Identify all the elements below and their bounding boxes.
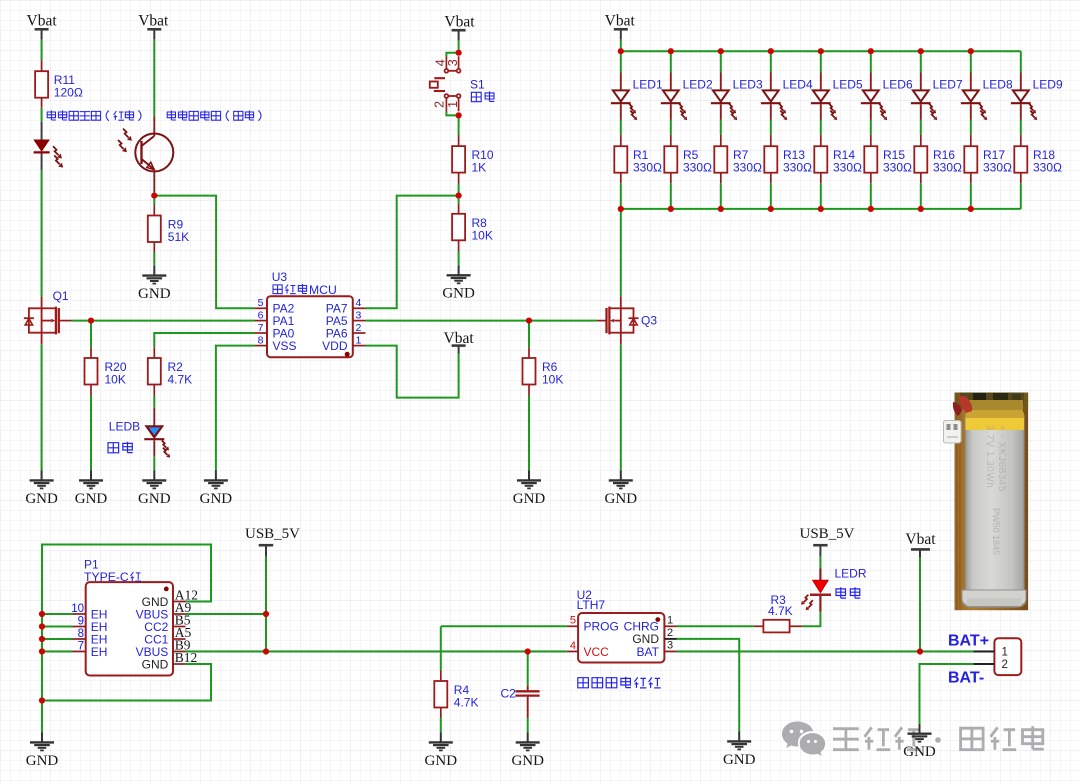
svg-text:330Ω: 330Ω (933, 161, 962, 175)
svg-text:1: 1 (667, 614, 673, 626)
junction bottom bus 2 (668, 206, 674, 212)
P1 left pin stubs (73, 613, 86, 615)
switch S1 pushbutton (430, 56, 461, 111)
ground (LEDB) (153, 471, 155, 481)
wire S1 to R10 (458, 115, 460, 135)
svg-text:Q1: Q1 (53, 289, 69, 303)
wire S1 pin4 bracket (446, 53, 458, 57)
resistor R5 (664, 146, 677, 173)
svg-text:LEDR: LEDR (835, 567, 867, 581)
svg-text:330Ω: 330Ω (683, 161, 712, 175)
junction top bus 4 (768, 48, 774, 54)
junction left rail (39, 623, 45, 629)
wire bus to LED7 (920, 51, 922, 72)
wire R14 to bottom bus (820, 183, 822, 209)
wire Vbat to BAT+ (919, 557, 921, 652)
svg-text:S1: S1 (470, 78, 485, 92)
svg-text:LEDB: LEDB (109, 420, 140, 434)
D1 emission arrows (53, 146, 59, 155)
svg-text:GND: GND (138, 286, 171, 302)
resistor R3 (horizontal) (754, 625, 764, 627)
svg-text:4: 4 (356, 297, 362, 309)
junction bottom bus 8 (968, 206, 974, 212)
svg-text:LTH7: LTH7 (577, 598, 606, 612)
svg-text:330Ω: 330Ω (783, 161, 812, 175)
svg-text:8: 8 (78, 628, 84, 640)
svg-text:5: 5 (258, 297, 264, 309)
wire BAT- to GND (920, 664, 974, 724)
ground (U2) (738, 732, 740, 742)
wire Vbat to R11 (41, 40, 43, 61)
svg-text:GND: GND (605, 491, 638, 507)
svg-text:3: 3 (356, 309, 362, 321)
wire S1 pin2 bracket (446, 112, 458, 116)
LED4 emission arrows (779, 104, 783, 111)
svg-text:GND: GND (723, 752, 756, 768)
resistor R14 (814, 146, 827, 173)
label IR emitter (transparent) (47, 111, 56, 121)
junction top bus 6 (868, 48, 874, 54)
Q3 body diode (629, 317, 639, 319)
LED9 emission arrows (1029, 104, 1033, 111)
svg-text:120Ω: 120Ω (54, 86, 83, 100)
wire P1 left pin (42, 638, 73, 640)
resistor R8 (452, 214, 465, 241)
junction top bus 2 (668, 48, 674, 54)
wire U3 VSS to GND (216, 346, 255, 471)
wire R20 to GND (90, 396, 92, 471)
U2 pin stubs (567, 625, 578, 627)
wire VCC to C2 (527, 652, 529, 686)
LED3 emission arrows (729, 104, 733, 111)
junction left rail (39, 636, 45, 642)
svg-text:1K: 1K (472, 161, 487, 175)
wire U3 PA5 to Q3 gate (366, 320, 597, 322)
wire P1 left pin (42, 613, 73, 615)
U2 pin1 dot (655, 617, 660, 622)
resistor R11 pins (41, 60, 43, 71)
label charge management chip (578, 678, 589, 688)
wire LED6 to R15 (870, 120, 872, 135)
svg-text:U3: U3 (272, 270, 288, 284)
svg-text:LED8: LED8 (983, 78, 1013, 92)
wire R17 to bottom bus (970, 183, 972, 209)
wire bus to LED8 (970, 51, 972, 72)
Q1 body diode (24, 317, 34, 319)
svg-text:1: 1 (356, 334, 362, 346)
svg-text:GND: GND (200, 491, 233, 507)
junction Q2 emitter / R9 (151, 193, 157, 199)
svg-text:330Ω: 330Ω (983, 161, 1012, 175)
svg-text:GND: GND (442, 286, 475, 302)
resistor R1 (614, 146, 627, 173)
svg-text:10K: 10K (472, 228, 493, 242)
junction bottom bus 7 (918, 206, 924, 212)
svg-text:LED2: LED2 (683, 78, 713, 92)
wire bus to LED1 (620, 51, 622, 72)
wire USB_5V to LEDR (819, 557, 821, 569)
svg-text:51K: 51K (168, 230, 189, 244)
label MCU chinese (273, 285, 282, 294)
resistor R18 (1014, 146, 1027, 173)
wire junction to R8 (458, 196, 460, 204)
svg-text:PROG: PROG (584, 620, 619, 634)
wire bus to LED2 (670, 51, 672, 72)
LED LED6 (870, 73, 872, 91)
LEDB emission arrows (162, 440, 167, 447)
wire U2 PROG (441, 625, 567, 627)
svg-text:GND: GND (425, 753, 458, 769)
wire R3 to LEDR (802, 612, 820, 627)
resistor R15 (864, 146, 877, 173)
wire junction to R6 (528, 321, 530, 348)
junction top bus 3 (718, 48, 724, 54)
svg-text:3: 3 (446, 59, 460, 66)
wire U3 PA7 to R10/R8 junction (366, 196, 459, 309)
svg-text:BAT: BAT (637, 645, 660, 659)
wire bus to LED9 (1020, 51, 1022, 72)
resistor R7 pins (720, 135, 722, 146)
charger IC U2 LTH7 (578, 613, 664, 663)
svg-text:GND: GND (138, 491, 171, 507)
resistor R13 pins (770, 135, 772, 146)
label blue color (108, 443, 119, 453)
wire U3 VDD to Vbat (366, 346, 459, 398)
label red color (836, 587, 846, 598)
wire Vbat to S1 (458, 41, 460, 53)
watermark text (833, 729, 859, 750)
wire Q2 emitter to U3 PA2 (154, 196, 254, 309)
P1 pin1 dot (164, 587, 169, 592)
wire R9 to GND (153, 253, 155, 266)
resistor R16 (914, 146, 927, 173)
svg-text:EH: EH (91, 645, 108, 659)
svg-text:10K: 10K (542, 373, 563, 387)
Q3 gate pin (597, 320, 607, 322)
junction VCC / C2 (525, 648, 531, 654)
resistor R5 pins (670, 135, 672, 146)
wire R5 to bottom bus (670, 183, 672, 209)
svg-text:LED6: LED6 (883, 78, 913, 92)
junction R10/R8/PA7 (456, 193, 462, 199)
ground (C2) (527, 733, 529, 743)
resistor R11 (35, 71, 48, 98)
resistor R10 pins (458, 135, 460, 146)
ground (VSS) (215, 471, 217, 481)
svg-text:2: 2 (433, 101, 447, 108)
wire P1 left pin (42, 626, 73, 628)
LEDR emission arrows (804, 595, 809, 602)
wire R4 to GND (440, 718, 442, 733)
LED LED7 (920, 73, 922, 91)
connector J1 battery (994, 638, 1021, 675)
LED1 emission arrows (629, 104, 633, 111)
wire LED bottom bus (621, 208, 1021, 210)
wire LED1 to R1 (620, 120, 622, 135)
junction bottom bus 6 (868, 206, 874, 212)
junction left rail (39, 648, 45, 654)
wire LED top bus (621, 50, 1021, 52)
ground (Q1) (41, 471, 43, 481)
svg-text:8: 8 (258, 334, 264, 346)
svg-text:330Ω: 330Ω (733, 161, 762, 175)
resistor R10 (452, 146, 465, 173)
resistor R17 pins (970, 135, 972, 146)
junction bottom bus 5 (818, 206, 824, 212)
svg-text:LED9: LED9 (1033, 78, 1063, 92)
svg-text:GND: GND (903, 744, 936, 760)
wire R2 to LEDB (153, 396, 155, 408)
junction left rail / B12 (39, 697, 45, 703)
svg-text:1: 1 (446, 101, 460, 108)
wire Q1 gate to U3 PA1 (72, 320, 255, 322)
svg-text:2: 2 (356, 322, 362, 334)
junction top bus 8 (968, 48, 974, 54)
svg-text:3.7V 1.30Wh: 3.7V 1.30Wh (984, 425, 995, 488)
ground (R4) (440, 733, 442, 743)
svg-text:Vbat: Vbat (905, 531, 936, 548)
svg-text:2: 2 (667, 627, 673, 639)
svg-text:4: 4 (570, 640, 576, 652)
wire R15 to bottom bus (870, 183, 872, 209)
wire R18 to bottom bus (1020, 183, 1022, 209)
svg-text:VDD: VDD (322, 339, 348, 353)
wire C2 to GND (527, 718, 529, 733)
svg-text:LED4: LED4 (783, 78, 813, 92)
svg-text:2: 2 (1002, 659, 1008, 671)
svg-text:9: 9 (78, 616, 84, 628)
svg-text:330Ω: 330Ω (633, 161, 662, 175)
svg-text:GND: GND (75, 491, 108, 507)
resistor R8 pins (458, 203, 460, 214)
wire LED9 to R18 (1020, 120, 1022, 135)
U3 pin stubs (254, 307, 267, 309)
watermark wechat icon (782, 722, 825, 756)
wire junction to R20 (90, 321, 92, 348)
svg-text:Vbat: Vbat (27, 13, 58, 30)
red LED LEDR (819, 596, 821, 612)
svg-text:BAT+: BAT+ (948, 632, 989, 649)
wire LED4 to R13 (770, 120, 772, 135)
wire U2 GND pin (677, 639, 740, 732)
svg-text:6: 6 (258, 309, 264, 321)
wire Q1 drain to GND (41, 344, 43, 470)
junction top bus 7 (918, 48, 924, 54)
svg-text:1: 1 (1002, 647, 1008, 659)
resistor R9 pins (153, 205, 155, 216)
svg-text:330Ω: 330Ω (833, 161, 862, 175)
svg-text:Vbat: Vbat (138, 13, 169, 30)
junction bottom bus 1 (618, 206, 624, 212)
junction left rail (39, 611, 45, 617)
svg-text:5: 5 (570, 615, 576, 627)
wire LED8 to R17 (970, 120, 972, 135)
wire P1 A12 GND loop / left rail (42, 545, 211, 733)
wire bottom bus to Q3 drain (620, 209, 622, 296)
wire R13 to bottom bus (770, 183, 772, 209)
wire R7 to bottom bus (720, 183, 722, 209)
wire P1 B9 / VCC net (186, 651, 567, 653)
svg-text:3: 3 (667, 640, 673, 652)
LED2 emission arrows (679, 104, 683, 111)
junction USB_5V / B9 (263, 648, 269, 654)
ground (R6) (528, 471, 530, 481)
LED LED4 (770, 73, 772, 91)
svg-text:LED7: LED7 (933, 78, 963, 92)
wire LEDB to GND (153, 457, 155, 471)
ground (BAT-) (919, 724, 921, 734)
junction S1 top (456, 50, 462, 56)
resistor R20 pins (90, 347, 92, 358)
LED LED3 (720, 73, 722, 91)
wire Q3 source to GND (620, 344, 622, 470)
LED LED1 (620, 73, 622, 91)
wire Vbat to LED bus (620, 40, 622, 52)
ground (Q3) (620, 471, 622, 481)
svg-text:4.7K: 4.7K (454, 696, 479, 710)
wire P1 left pin (42, 651, 73, 653)
ground (P1) (41, 733, 43, 743)
svg-text:LED3: LED3 (733, 78, 763, 92)
wire R1 to bottom bus (620, 183, 622, 209)
svg-text:4.7K: 4.7K (768, 604, 793, 618)
LED5 emission arrows (829, 104, 833, 111)
junction USB_5V / A9 (263, 611, 269, 617)
wire R11 to D1 (41, 108, 43, 122)
svg-text:GND: GND (26, 753, 59, 769)
svg-text:LED1: LED1 (633, 78, 663, 92)
resistor R9 (148, 216, 161, 243)
junction PA5 / R6 (526, 318, 532, 324)
ground (R8) (458, 265, 460, 275)
svg-text:330Ω: 330Ω (883, 161, 912, 175)
junction Vbat / BAT+ (917, 648, 923, 654)
resistor R2 (148, 358, 161, 385)
svg-text:+ - XKJ68345: + - XKJ68345 (996, 425, 1007, 492)
svg-text:GND: GND (25, 491, 58, 507)
junction bottom bus 4 (768, 206, 774, 212)
svg-text:VCC: VCC (584, 645, 610, 659)
wire bus to LED3 (720, 51, 722, 72)
svg-text:Vbat: Vbat (605, 13, 636, 30)
wire LED5 to R14 (820, 120, 822, 135)
svg-text:7: 7 (78, 641, 84, 653)
svg-text:VSS: VSS (273, 339, 297, 353)
phototransistor Q2 (IR receiver) (153, 117, 155, 137)
wire U3 PA0 to R2 (154, 333, 254, 347)
U3 pin1 dot (345, 352, 350, 357)
svg-text:GND: GND (142, 657, 169, 671)
IR emitter LED D1 (41, 122, 43, 140)
wire USB_5V rail (265, 557, 267, 652)
transistor Q3 PMOS (607, 296, 634, 344)
svg-text:GND: GND (511, 753, 544, 769)
ground (R20) (90, 471, 92, 481)
label IR receiver (black) (167, 111, 176, 121)
svg-text:C2: C2 (501, 687, 517, 701)
junction S1 bottom (456, 112, 462, 118)
wire D1 to Q1 source (41, 171, 43, 297)
wire bus to LED4 (770, 51, 772, 72)
junction Q1 gate / R20 (88, 318, 94, 324)
resistor R1 pins (620, 135, 622, 146)
wire P1 B12 GND loop (42, 664, 211, 701)
resistor R4 (434, 681, 447, 708)
svg-text:LED5: LED5 (833, 78, 863, 92)
junction top bus 1 (618, 48, 624, 54)
resistor R18 pins (1020, 135, 1022, 146)
connector P1 TYPE-C (86, 582, 173, 675)
resistor R13 (764, 146, 777, 173)
svg-text:BAT-: BAT- (948, 669, 984, 686)
LED8 emission arrows (979, 104, 983, 111)
wire Vbat to Q2 (153, 40, 155, 117)
resistor R17 (964, 146, 977, 173)
ground (R9) (153, 266, 155, 276)
wire bus to LED6 (870, 51, 872, 72)
LED6 emission arrows (879, 104, 883, 111)
resistor R20 (85, 358, 98, 385)
blue LED LEDB (153, 408, 155, 427)
wire CHRG to R3 (677, 625, 754, 627)
svg-text:7: 7 (258, 322, 264, 334)
svg-text:10K: 10K (105, 373, 126, 387)
capacitor C2 (527, 685, 529, 690)
wire PROG down to R4 (440, 626, 442, 670)
resistor R14 pins (820, 135, 822, 146)
svg-text:USB_5V: USB_5V (799, 526, 854, 542)
resistor R16 pins (920, 135, 922, 146)
wire R8 to GND (458, 251, 460, 265)
wire U2 BAT to connector (677, 651, 974, 653)
op-amp U3 MCU (267, 296, 353, 357)
svg-text:MCU: MCU (309, 283, 337, 297)
transistor Q1 PMOS (29, 297, 59, 344)
svg-text:GND: GND (513, 491, 546, 507)
svg-text:Q3: Q3 (641, 314, 657, 328)
wire LED2 to R5 (670, 120, 672, 135)
wire LED7 to R16 (920, 120, 922, 135)
label pushbutton chinese (471, 92, 481, 101)
wire R6 to GND (528, 396, 530, 471)
Q2 incident light arrows (123, 129, 129, 138)
svg-text:PW50 1845: PW50 1845 (991, 508, 1001, 555)
wire LED3 to R7 (720, 120, 722, 135)
LED LED8 (970, 73, 972, 91)
svg-text:USB_5V: USB_5V (245, 526, 300, 542)
wire R10 to junction (458, 184, 460, 196)
svg-text:Vbat: Vbat (444, 14, 475, 31)
svg-text:330Ω: 330Ω (1033, 161, 1062, 175)
wire R16 to bottom bus (920, 183, 922, 209)
resistor R2 pins (153, 347, 155, 358)
junction top bus 5 (818, 48, 824, 54)
resistor R7 (714, 146, 727, 173)
wire junction to R9 (153, 196, 155, 205)
Q1 gate pin (59, 320, 72, 322)
resistor R15 pins (870, 135, 872, 146)
svg-text:TYPE-C: TYPE-C (84, 570, 129, 584)
junction bottom bus 3 (718, 206, 724, 212)
resistor R6 (523, 358, 536, 385)
resistor R4 pins (440, 671, 442, 682)
wire bus to LED5 (820, 51, 822, 72)
svg-text:10: 10 (71, 603, 84, 615)
wire P1 A9 to USB_5V (186, 613, 267, 615)
svg-text:4.7K: 4.7K (168, 373, 193, 387)
P1 right pin stubs (173, 601, 186, 603)
LED LED5 (820, 73, 822, 91)
